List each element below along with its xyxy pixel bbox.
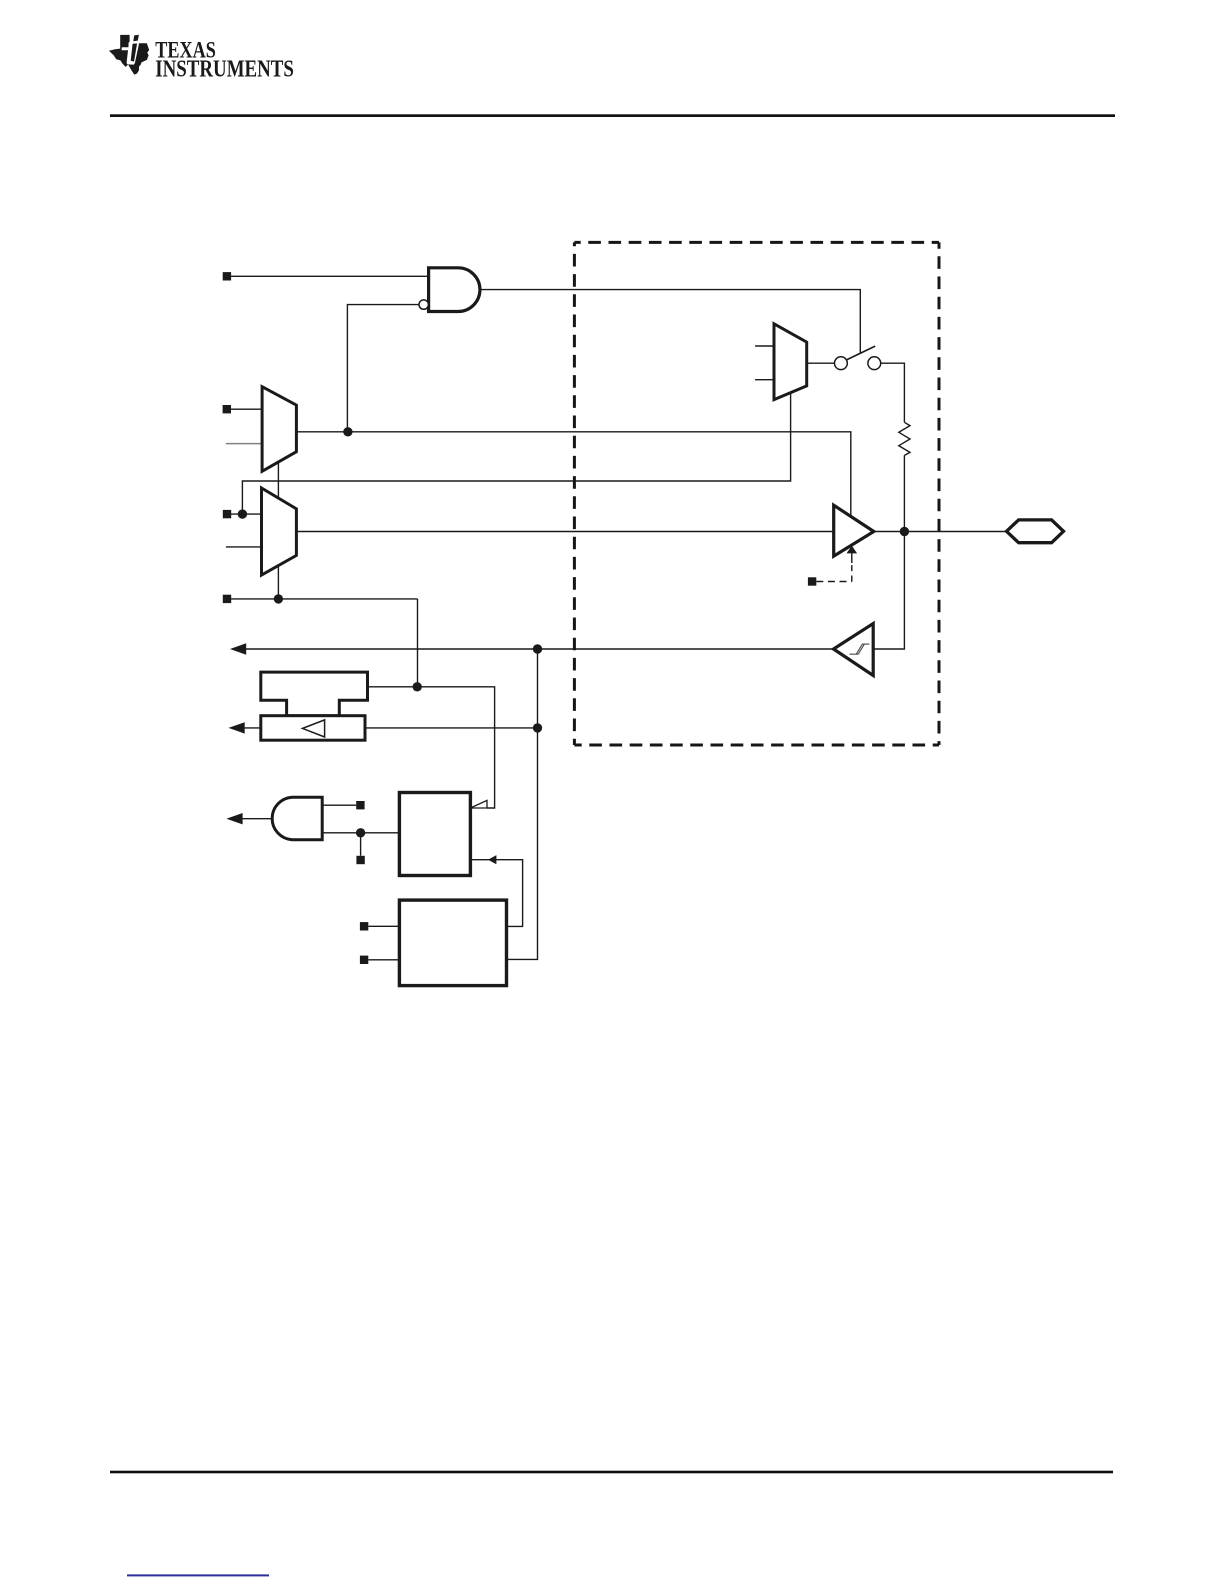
- junction node: schmitt output: [533, 644, 542, 653]
- wire: NAND lower input from mux1 output node: [347, 305, 419, 432]
- clock edge flag on block3: [470, 800, 487, 808]
- wire: resistor to pad node to schmitt input: [873, 455, 904, 649]
- wire: terminal 7 stub: [360, 833, 362, 856]
- wire: terminal 1 to NAND top input: [231, 275, 429, 277]
- mux M1 (direction mux): [262, 387, 296, 472]
- input schmitt-trigger buffer: [834, 624, 874, 676]
- resistor (pullup) zigzag: [899, 422, 910, 455]
- wire: select row down to register node: [417, 599, 419, 687]
- footer rule: [110, 1471, 1113, 1474]
- arrow: AND output (left): [226, 813, 242, 824]
- block1 (PxSEL register, notched): [261, 672, 368, 716]
- junction node: block1 output: [413, 682, 422, 691]
- arrow: block2 output (left): [229, 722, 245, 733]
- arrow: into block3 right input (left, mid-wire): [488, 855, 496, 864]
- NAND-style gate (AND with inverted input): [429, 268, 480, 312]
- dashed module boundary box: [574, 242, 939, 745]
- block3 (interrupt flag register): [399, 793, 470, 876]
- wire: mux2 select vertical: [277, 566, 279, 599]
- junction node: mux2 input1: [238, 509, 247, 518]
- wire: schmitt output row to left arrow: [245, 648, 834, 650]
- arrow: schmitt output to CPU (left): [230, 643, 246, 654]
- terminal square 7 (AND input 2): [356, 856, 364, 864]
- block4 (interrupt edge select): [399, 900, 506, 986]
- junction node: AND input 2: [356, 828, 365, 837]
- terminal square 1: [223, 272, 231, 280]
- terminal square 5 (driver enable control): [808, 577, 816, 585]
- wire: terminal 3 to mux2 input 1: [231, 513, 262, 515]
- block2 inner buffer triangle: [303, 720, 325, 737]
- header rule: [110, 114, 1115, 117]
- AND gate (interrupt, pointing left): [272, 797, 322, 840]
- wire: mux3 input stub 1: [755, 345, 774, 347]
- wire: NAND output to switch: [480, 290, 860, 353]
- wire: switch to resistor: [881, 363, 905, 422]
- switch contact circle left: [835, 357, 848, 370]
- junction node: select row: [274, 594, 283, 603]
- svg-text:INSTRUMENTS: INSTRUMENTS: [155, 56, 294, 83]
- wire: terminal 2 to mux1 input 1: [231, 408, 262, 410]
- driver enable control dashed line: [816, 553, 852, 582]
- wire: block2 output row right: [365, 727, 538, 729]
- wire: AND output to left arrow: [241, 818, 271, 820]
- wire: mux3 output to switch contact: [807, 362, 835, 364]
- wire: mux3 input stub 2: [755, 379, 774, 381]
- wire: terminal 9 stub: [368, 959, 399, 961]
- terminal square 3: [223, 510, 231, 518]
- mux M2 (output mux): [262, 488, 297, 575]
- wire: AND input 1 stub: [322, 804, 356, 806]
- wire: terminal 4 select row: [231, 598, 418, 600]
- wire: mux2 input 2 stub: [226, 546, 262, 548]
- wire: block1 output row: [368, 687, 495, 808]
- terminal square 8 (block4 input 1): [360, 922, 368, 930]
- NAND inverted-input bubble: [419, 300, 428, 309]
- mux M3 (pullup source mux): [774, 324, 807, 400]
- wire: terminal 8 stub: [368, 925, 399, 927]
- wire: block2 output to left arrow: [243, 727, 261, 729]
- switch contact circle right: [868, 357, 881, 370]
- wire: mux2 output to driver input: [296, 531, 833, 533]
- wire: mux1 select vertical: [277, 463, 279, 498]
- pad hexagon: [1007, 520, 1064, 543]
- wire: AND input 2 row to block3: [322, 832, 399, 834]
- footer link underline (blue): [127, 1574, 269, 1576]
- TI logo bug (Texas map with ti): [109, 35, 149, 75]
- terminal square 6 (AND input 1): [356, 801, 364, 809]
- wire: mux1 output to driver enable: [296, 432, 850, 517]
- driver enable arrow (up): [847, 546, 858, 554]
- wire: driver output to pad: [874, 531, 1007, 533]
- hysteresis symbol: [849, 644, 869, 654]
- output driver buffer (tri-state): [834, 505, 874, 556]
- block2 (PxOUT register with buffer): [261, 716, 365, 741]
- wire: mux1 input 2 stub (gray): [226, 443, 262, 445]
- terminal square 2: [223, 405, 231, 413]
- junction node: mux1 output: [343, 427, 352, 436]
- wire: schmitt node vertical to block4: [507, 649, 538, 959]
- junction node: block2 output: [533, 723, 542, 732]
- wire: block4 output up to block3 right input: [470, 860, 522, 927]
- wire: mux3 select to terminal 3 node: [242, 392, 790, 514]
- terminal square 4: [223, 595, 231, 603]
- terminal square 9 (block4 input 2): [360, 956, 368, 964]
- junction node: pad line: [900, 527, 909, 536]
- switch blade: [847, 346, 876, 360]
